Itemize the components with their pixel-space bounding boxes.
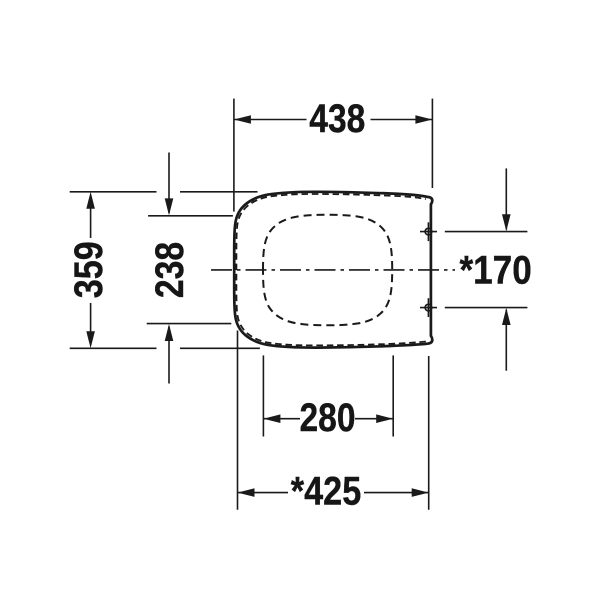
svg-text:238: 238 xyxy=(148,242,192,298)
arrowhead 438 right xyxy=(415,115,432,124)
arrowhead *425 right xyxy=(412,488,429,497)
dim *425 extension line right xyxy=(428,356,430,510)
dim 238 extension line top xyxy=(148,215,233,217)
arrowhead 359 down xyxy=(86,331,95,348)
hinge hole cross, top xyxy=(420,222,437,241)
seat ring hidden edge (dashed, just inside lid) xyxy=(236,194,425,345)
svg-text:359: 359 xyxy=(67,241,111,298)
dim 238 arrow leader top xyxy=(168,153,170,214)
arrowhead 359 up xyxy=(86,192,95,209)
dim 359 extension line bottom xyxy=(70,347,157,349)
horizontal centerline (dash-dot) xyxy=(211,269,455,271)
dim 238 arrow leader bottom xyxy=(168,327,170,384)
arrowhead 280 left xyxy=(263,414,280,423)
svg-text:280: 280 xyxy=(300,396,356,440)
arrowhead *425 left xyxy=(238,488,255,497)
dim *170 arrow leader top xyxy=(505,168,507,229)
dim 438 extension line left xyxy=(233,99,235,212)
arrowhead 238 down (top) xyxy=(165,198,174,215)
dim 359 extension line top xyxy=(70,191,157,193)
seat opening (hidden, dashed rounded shape) xyxy=(263,215,392,325)
dim *170 arrow leader bottom xyxy=(505,310,507,371)
dim 238 extension line bottom xyxy=(147,323,232,325)
outer seat-lid outline xyxy=(234,192,432,348)
svg-text:438: 438 xyxy=(309,97,365,141)
arrowhead *170 down (top) xyxy=(502,214,511,231)
svg-text:*425: *425 xyxy=(291,469,362,513)
dim 438 extension line right xyxy=(431,99,433,188)
dim 280 extension line left xyxy=(262,355,264,436)
dim *425 dimension line xyxy=(238,492,289,494)
svg-text:*170: *170 xyxy=(459,249,531,293)
arrowhead 438 left xyxy=(234,115,251,124)
dim *170 extension line top xyxy=(445,231,528,233)
dim *170 extension line bottom xyxy=(445,307,528,309)
dim 438 dimension line xyxy=(234,119,307,121)
dim 280 dimension line xyxy=(263,418,300,420)
hinge hole cross, bottom xyxy=(420,298,437,317)
arrowhead 280 right xyxy=(376,414,393,423)
dim *425 extension line left xyxy=(237,331,239,510)
arrowhead *170 up (bottom) xyxy=(502,308,511,325)
dim 359 dimension line xyxy=(90,206,92,238)
arrowhead 238 up (bottom) xyxy=(165,324,174,341)
dim 280 extension line right xyxy=(392,355,394,436)
